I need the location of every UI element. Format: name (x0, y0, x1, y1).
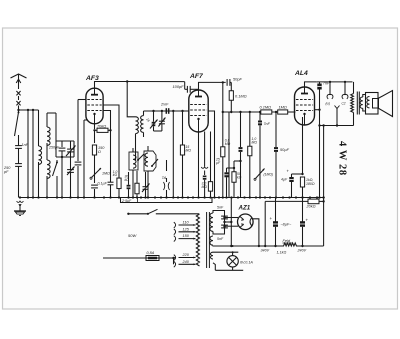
wire AL4 bottom line (320, 124, 354, 126)
capacitor 5nF b (217, 206, 228, 231)
trimmer C-pad (67, 157, 75, 198)
wire AF7 plate top line (199, 82, 226, 90)
speaker cone (378, 91, 393, 117)
wire grid line AF7 (144, 110, 189, 112)
wire AF3 plate top (95, 82, 136, 117)
svg-text:125: 125 (183, 227, 190, 231)
svg-text:5nF: 5nF (217, 237, 224, 241)
capacitor 25uF bias (121, 198, 213, 204)
svg-text:+: + (270, 216, 273, 221)
svg-text:0.1MΩ: 0.1MΩ (235, 94, 247, 99)
wire antenna down2 (17, 106, 38, 112)
potentiometer 1M vol (254, 169, 273, 181)
capacitor 100pF (173, 82, 199, 93)
svg-text:MΩ: MΩ (252, 141, 258, 145)
trimmer T1a (150, 111, 158, 131)
svg-text:1MΩ: 1MΩ (279, 105, 287, 110)
field coil resistor (261, 238, 307, 255)
coil T1 primary (136, 117, 139, 160)
wire mains left (103, 213, 128, 215)
svg-text:7nF: 7nF (264, 122, 271, 126)
coil osc A (129, 148, 138, 198)
resistor 0.1M h (260, 105, 272, 115)
fuse 0.8A (103, 251, 176, 264)
label 2nF (160, 103, 169, 107)
resistor 150 (92, 145, 105, 155)
svg-text:0.1MΩ: 0.1MΩ (260, 105, 272, 110)
capacitor 8uF b (300, 198, 309, 247)
wire b+ down (230, 198, 232, 247)
svg-text:MΩ: MΩ (186, 149, 192, 153)
capacitor blk1 (239, 112, 243, 198)
wire riser x47 (47, 113, 56, 127)
svg-text:100pF: 100pF (173, 84, 185, 89)
svg-text:50µF: 50µF (280, 147, 290, 152)
svg-text:+: + (306, 218, 309, 223)
wire AF3 side right2 (103, 111, 110, 131)
wire AF3 grid left (78, 99, 86, 101)
svg-text:AZ1: AZ1 (238, 205, 251, 212)
resistor 1M h (278, 105, 288, 115)
svg-text:~8µF~: ~8µF~ (281, 223, 293, 227)
svg-text:110: 110 (183, 221, 190, 225)
capacitor 50uF cath (281, 169, 304, 198)
transformer fil winding 1 (210, 236, 213, 245)
wire tank bottom (56, 141, 74, 198)
resistor 50k (227, 160, 242, 198)
spark gap X2 (16, 101, 20, 105)
svg-text:220: 220 (182, 253, 190, 257)
label AL4 (294, 70, 308, 77)
wire 240V line (296, 200, 324, 248)
socket pair 1 (326, 81, 334, 106)
wire x84 column (84, 120, 88, 198)
svg-text:50W: 50W (128, 233, 137, 238)
transformer primary (196, 214, 199, 266)
ground bus (19, 196, 325, 198)
wire r150 down (94, 155, 96, 183)
wire AF3 cathode (94, 124, 96, 129)
svg-text:70kΩ: 70kΩ (97, 124, 106, 129)
svg-text:6V,0.1A: 6V,0.1A (240, 261, 253, 265)
resistor 3.0M (202, 132, 213, 198)
spark gap X1 (16, 91, 20, 95)
wire caps mid (223, 221, 231, 223)
socket single (335, 106, 340, 127)
capacitor 25uF (215, 158, 229, 198)
svg-text:pF: pF (3, 170, 9, 174)
resistor 10k (113, 170, 121, 198)
capacitor 250pF (3, 148, 22, 197)
svg-text:1nF: 1nF (22, 143, 29, 147)
svg-text:(1MΩ): (1MΩ) (264, 173, 274, 177)
switch S4 osc (151, 159, 158, 167)
svg-text:AF7: AF7 (189, 73, 204, 80)
wire grid column (77, 100, 79, 162)
wire antenna down1 (18, 96, 20, 100)
wire HT top (213, 211, 225, 214)
transformer T-out primary (351, 82, 354, 126)
svg-text:1MΩ: 1MΩ (102, 172, 110, 176)
speaker field coil (367, 97, 370, 108)
label AF3 (85, 75, 99, 82)
wire lamp bottom (213, 263, 243, 271)
wire cathode down (94, 130, 96, 143)
socket 220 (174, 253, 196, 260)
potentiometer 1M (90, 168, 110, 179)
capacitor 250pF padder (48, 146, 65, 157)
svg-text:0,1µF: 0,1µF (98, 182, 108, 186)
wire x204 drop (201, 132, 208, 198)
svg-text:4 W 28: 4 W 28 (337, 141, 348, 176)
svg-text:(ω): (ω) (326, 102, 331, 106)
wire tank top (56, 113, 74, 147)
tube AF7 (189, 89, 208, 132)
svg-text:MΩ: MΩ (225, 142, 231, 146)
socket 240 (174, 260, 196, 267)
wire AL4 top (305, 82, 317, 87)
resistor 20k (306, 196, 325, 208)
resistor 0.1M a (229, 91, 246, 112)
wire screen bus (222, 111, 296, 113)
svg-text:Feld: Feld (283, 238, 291, 243)
svg-text:240V: 240V (297, 249, 307, 253)
svg-text:Ω: Ω (98, 150, 101, 154)
transformer lamp winding (211, 252, 214, 259)
transformer HT secondary (210, 213, 213, 231)
svg-text:7A: 7A (162, 175, 167, 180)
wire 201 line (265, 200, 308, 202)
resistor 180 (300, 177, 314, 199)
resistor 1.0M (248, 112, 258, 198)
coil osc B (144, 146, 156, 198)
wire AF3 to AF7 top (126, 80, 185, 82)
resistor 0.8M (221, 139, 231, 157)
trimmer osc (142, 172, 150, 198)
wire AZ1 filament (253, 219, 259, 246)
svg-text:kΩ: kΩ (113, 173, 118, 177)
wire riser x33 (32, 109, 34, 198)
resistor osc2 (135, 171, 139, 198)
capacitor grid C (75, 162, 82, 197)
capacitor avc (108, 130, 114, 197)
speaker magnet (373, 99, 379, 109)
wire AF7 right side (208, 111, 214, 198)
svg-text:4µF: 4µF (281, 178, 288, 182)
wire HT bottom (213, 229, 225, 234)
label AF7 (189, 73, 204, 80)
capacitor 2nF (166, 108, 168, 114)
capacitor 7nF out (316, 82, 352, 199)
socket pair 2 (342, 81, 349, 106)
svg-text:2!nF: 2!nF (160, 103, 169, 107)
wire riser x229 (228, 112, 230, 198)
svg-text:180Ω: 180Ω (306, 182, 315, 186)
wire AF3 side right1 (103, 105, 119, 178)
capacitor 50pF (227, 77, 242, 91)
switch S2 band (53, 160, 59, 198)
svg-text:50pF: 50pF (233, 77, 242, 82)
capacitor 5nF a (221, 213, 228, 221)
svg-text:MΩ: MΩ (202, 185, 208, 189)
svg-text:5nF: 5nF (217, 206, 224, 210)
ground (14, 201, 26, 215)
capacitor 8uF a (270, 198, 293, 247)
wire b+ to right (264, 201, 266, 246)
label AZ1 (238, 205, 251, 212)
wire rect plates (223, 216, 238, 227)
wire bus to coil top (38, 110, 40, 146)
tube AF3 (86, 88, 103, 124)
switch S mains (127, 209, 199, 215)
capacitor osc (125, 172, 131, 198)
capacitor 7nF scr (258, 112, 271, 198)
capacitor 50uF (274, 112, 290, 198)
coil T1 secondary (141, 111, 151, 137)
svg-text:340V: 340V (261, 249, 270, 253)
label 50W (128, 233, 137, 238)
wire AF7 cathode (198, 132, 200, 198)
svg-text:250pF: 250pF (48, 146, 60, 150)
coil L2b (47, 150, 50, 198)
transformer core (357, 92, 359, 115)
wire AL4 cath col (303, 117, 305, 174)
dial lamp (227, 256, 253, 267)
coil L2a (47, 127, 50, 150)
tube AL4 (295, 87, 315, 125)
label 4W28 (337, 141, 348, 176)
wire b+ rail (323, 126, 325, 202)
node antenna junction (27, 109, 29, 198)
antenna (11, 74, 27, 89)
switch S3 osc (137, 154, 144, 161)
variable capacitor C-tune1 (66, 141, 76, 157)
node AF7 top junction (222, 81, 224, 197)
svg-text:AL4: AL4 (294, 70, 308, 77)
wire filter top left (126, 80, 128, 82)
svg-text:AF3: AF3 (85, 75, 99, 82)
socket 150 (174, 234, 196, 241)
transformer T-out secondary (360, 95, 365, 112)
wire lamp top (213, 251, 238, 256)
socket 125 (174, 227, 196, 234)
svg-text:0,8A: 0,8A (147, 251, 155, 255)
wire to AL4 grid (288, 111, 296, 113)
speaker box (366, 93, 379, 115)
resistor 15M (180, 111, 191, 198)
label 25uF box (121, 198, 138, 203)
svg-text:1,1kΩ: 1,1kΩ (277, 251, 287, 255)
socket 110 (174, 221, 196, 228)
svg-text:20kΩ: 20kΩ (306, 205, 316, 209)
wire x173 drop (172, 111, 174, 198)
capacitor 0.1uF cath (91, 182, 107, 198)
resistor 70k (93, 124, 111, 133)
transformer core2 (207, 212, 210, 268)
label 5nF2 (217, 237, 224, 241)
svg-text:C2: C2 (342, 102, 346, 106)
svg-text:240: 240 (182, 260, 190, 264)
coil L1 antenna (39, 146, 42, 198)
trimmer T1b (154, 111, 166, 131)
wire 340V line (274, 245, 276, 247)
switch S1 antenna (15, 110, 20, 137)
capacitor 1nF (15, 137, 29, 148)
svg-text:150: 150 (183, 234, 190, 238)
rectifier AZ1 (238, 214, 254, 230)
wire AL4 screen col (315, 109, 320, 111)
wire center tap (213, 245, 284, 247)
wave trap 7A (162, 160, 170, 198)
